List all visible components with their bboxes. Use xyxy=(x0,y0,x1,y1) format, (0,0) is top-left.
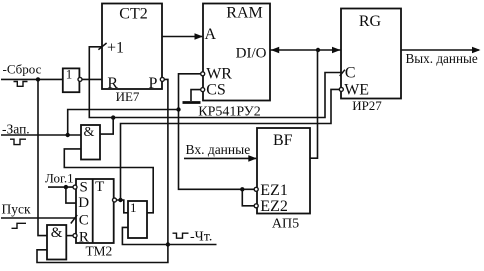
pin WE of RG xyxy=(344,81,369,98)
AND gate U4 (&) lower xyxy=(47,225,66,260)
pin C of TM2 xyxy=(71,212,89,228)
svg-text:T: T xyxy=(95,179,104,195)
node Лог.1 junction xyxy=(64,185,68,189)
wire P output down to bottom bus xyxy=(37,79,168,262)
svg-text:Лог.1: Лог.1 xyxy=(45,171,74,186)
AND gate U2 (&) upper xyxy=(81,125,100,160)
svg-text:ИЕ7: ИЕ7 xyxy=(116,89,140,104)
svg-text:S: S xyxy=(80,180,88,196)
pin EZ1 of BF xyxy=(260,182,288,199)
wire Лог.1 to S of TM2 xyxy=(48,186,73,188)
svg-text:Пуск: Пуск xyxy=(2,202,31,217)
label -Сброс with pulse symbol xyxy=(3,62,42,87)
OR gate U3 (1) lower xyxy=(128,200,147,238)
node TM2 output junction xyxy=(118,198,122,202)
svg-text:CT2: CT2 xyxy=(119,6,147,23)
wire C net: +1 of CT2 across to C of RG xyxy=(89,47,341,118)
register RG box xyxy=(341,9,401,99)
wire upper AND output up to C net xyxy=(100,118,113,135)
pin D of TM2 xyxy=(78,195,89,211)
svg-text:EZ2: EZ2 xyxy=(260,198,288,215)
buffer BF box xyxy=(257,128,310,214)
svg-text:Вых. данные: Вых. данные xyxy=(406,51,478,66)
svg-text:CS: CS xyxy=(206,81,226,98)
svg-text:BF: BF xyxy=(273,132,293,149)
wire -Зап to upper AND input xyxy=(1,134,81,136)
pin R of TM2 xyxy=(73,230,89,246)
svg-text:&: & xyxy=(51,225,63,241)
wire -Чт branch to OR gate input xyxy=(122,227,167,244)
wire CS tie to common xyxy=(191,90,201,101)
svg-text:P: P xyxy=(149,75,158,92)
node AND output junction xyxy=(111,115,115,119)
pin C of RG xyxy=(345,65,356,82)
chip name ИР27 xyxy=(352,98,382,113)
label -Чт with pulse symbol xyxy=(173,229,213,244)
svg-text:1: 1 xyxy=(130,200,137,215)
node EZ bracket junction xyxy=(240,187,244,191)
dynamic-input slash at +1 xyxy=(98,43,106,50)
svg-text:C: C xyxy=(345,65,356,82)
wire WE net: TM2 output up and across to WE of RG xyxy=(121,89,340,200)
svg-text:DI/O: DI/O xyxy=(236,45,267,61)
pin P of CT2 xyxy=(149,75,158,92)
chip name АП5 xyxy=(272,217,299,232)
svg-text:&: & xyxy=(84,125,95,140)
wire DI/O bus down to BF output xyxy=(310,50,318,158)
wire -Чт stub xyxy=(168,244,217,246)
chip name КР541РУ2 xyxy=(198,105,260,120)
svg-text:RAM: RAM xyxy=(226,5,262,22)
label Пуск with pulse symbol xyxy=(2,202,31,229)
svg-text:D: D xyxy=(78,195,89,211)
pin CS of RAM xyxy=(206,81,226,98)
svg-text:+1: +1 xyxy=(107,39,124,56)
pin A of RAM xyxy=(205,26,217,43)
node -Зап junction xyxy=(66,133,70,137)
dynamic-input slash at C of RG xyxy=(340,70,345,76)
pin DI/O of RAM xyxy=(236,45,267,61)
inverted output bubble of TM2 xyxy=(113,198,117,202)
svg-text:RG: RG xyxy=(359,13,382,30)
pin R of CT2 xyxy=(107,75,118,92)
node DI/O bus junction xyxy=(316,48,320,52)
inversion bubble at CS xyxy=(201,88,205,92)
wire -Сброс to inverter xyxy=(1,78,63,80)
pin S of TM2 xyxy=(73,180,88,196)
wire EZ2 bracket xyxy=(242,189,254,206)
svg-text:ТМ2: ТМ2 xyxy=(85,243,112,258)
wire inverter output to R of CT2 xyxy=(82,78,102,80)
wire WR net: WR of RAM down to EZ1/EZ2 xyxy=(179,74,255,190)
RAM box xyxy=(203,4,270,101)
label Лог.1 xyxy=(45,171,74,186)
svg-text:Вх. данные: Вх. данные xyxy=(186,142,251,157)
counter CT2 box xyxy=(102,4,162,90)
inversion bubble at WE xyxy=(339,87,343,91)
svg-text:WR: WR xyxy=(206,65,232,82)
pin WR of RAM xyxy=(206,65,232,82)
chip name ТМ2 xyxy=(85,243,112,258)
pin +1 of CT2 xyxy=(107,39,124,56)
wire lower AND output to R of TM2 xyxy=(66,235,73,237)
wire -Сброс down to lower AND input xyxy=(38,79,47,235)
svg-text:A: A xyxy=(205,26,217,43)
node -Чт junction xyxy=(166,242,170,246)
svg-text:ИР27: ИР27 xyxy=(352,98,382,113)
wire TM2 output to OR gate input xyxy=(117,200,129,213)
flip-flop TM2 box xyxy=(76,179,114,243)
svg-text:АП5: АП5 xyxy=(272,217,299,232)
inverter U1 (1) after -Сброс xyxy=(63,67,82,93)
common-level bar at CS xyxy=(183,101,201,104)
wire OR output to upper AND second input xyxy=(64,149,153,213)
wire DI/O bus between RAM and RG xyxy=(270,47,341,54)
svg-text:C: C xyxy=(79,212,89,228)
pin EZ2 of BF xyxy=(260,198,288,215)
node: -Сброс branch junction xyxy=(36,77,40,81)
wire Пуск to C of TM2 xyxy=(1,217,76,219)
wire Вх. данные input to BF xyxy=(184,142,257,162)
svg-text:1: 1 xyxy=(66,67,73,82)
inversion bubble at P output xyxy=(160,77,164,81)
chip name ИЕ7 xyxy=(116,89,140,104)
svg-text:-Сброс: -Сброс xyxy=(3,62,42,77)
wire CT2 output to A of RAM xyxy=(162,33,203,40)
svg-text:-Чт.: -Чт. xyxy=(190,229,212,244)
wire -Зап branch up to WR net xyxy=(68,110,179,136)
wire Лог.1 branch to D of TM2 xyxy=(66,187,76,203)
node on WR net at y109 xyxy=(176,107,180,111)
inversion bubble at EZ2 xyxy=(254,204,258,208)
svg-text:WE: WE xyxy=(344,81,369,98)
inversion bubble at WR xyxy=(201,72,205,76)
inversion bubble at EZ1 xyxy=(254,187,258,191)
label -Зап with pulse symbol xyxy=(2,122,30,145)
wire Вых. данные output xyxy=(401,47,481,66)
svg-text:EZ1: EZ1 xyxy=(260,182,288,199)
